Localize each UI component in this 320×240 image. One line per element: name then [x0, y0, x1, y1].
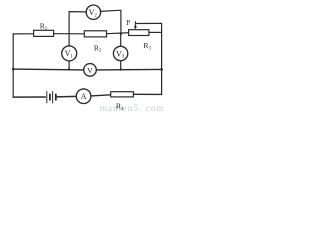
svg-text:A: A: [81, 92, 87, 101]
svg-text:P: P: [126, 19, 130, 27]
svg-text:V: V: [87, 66, 93, 75]
svg-text:manfen5. com: manfen5. com: [100, 103, 165, 113]
